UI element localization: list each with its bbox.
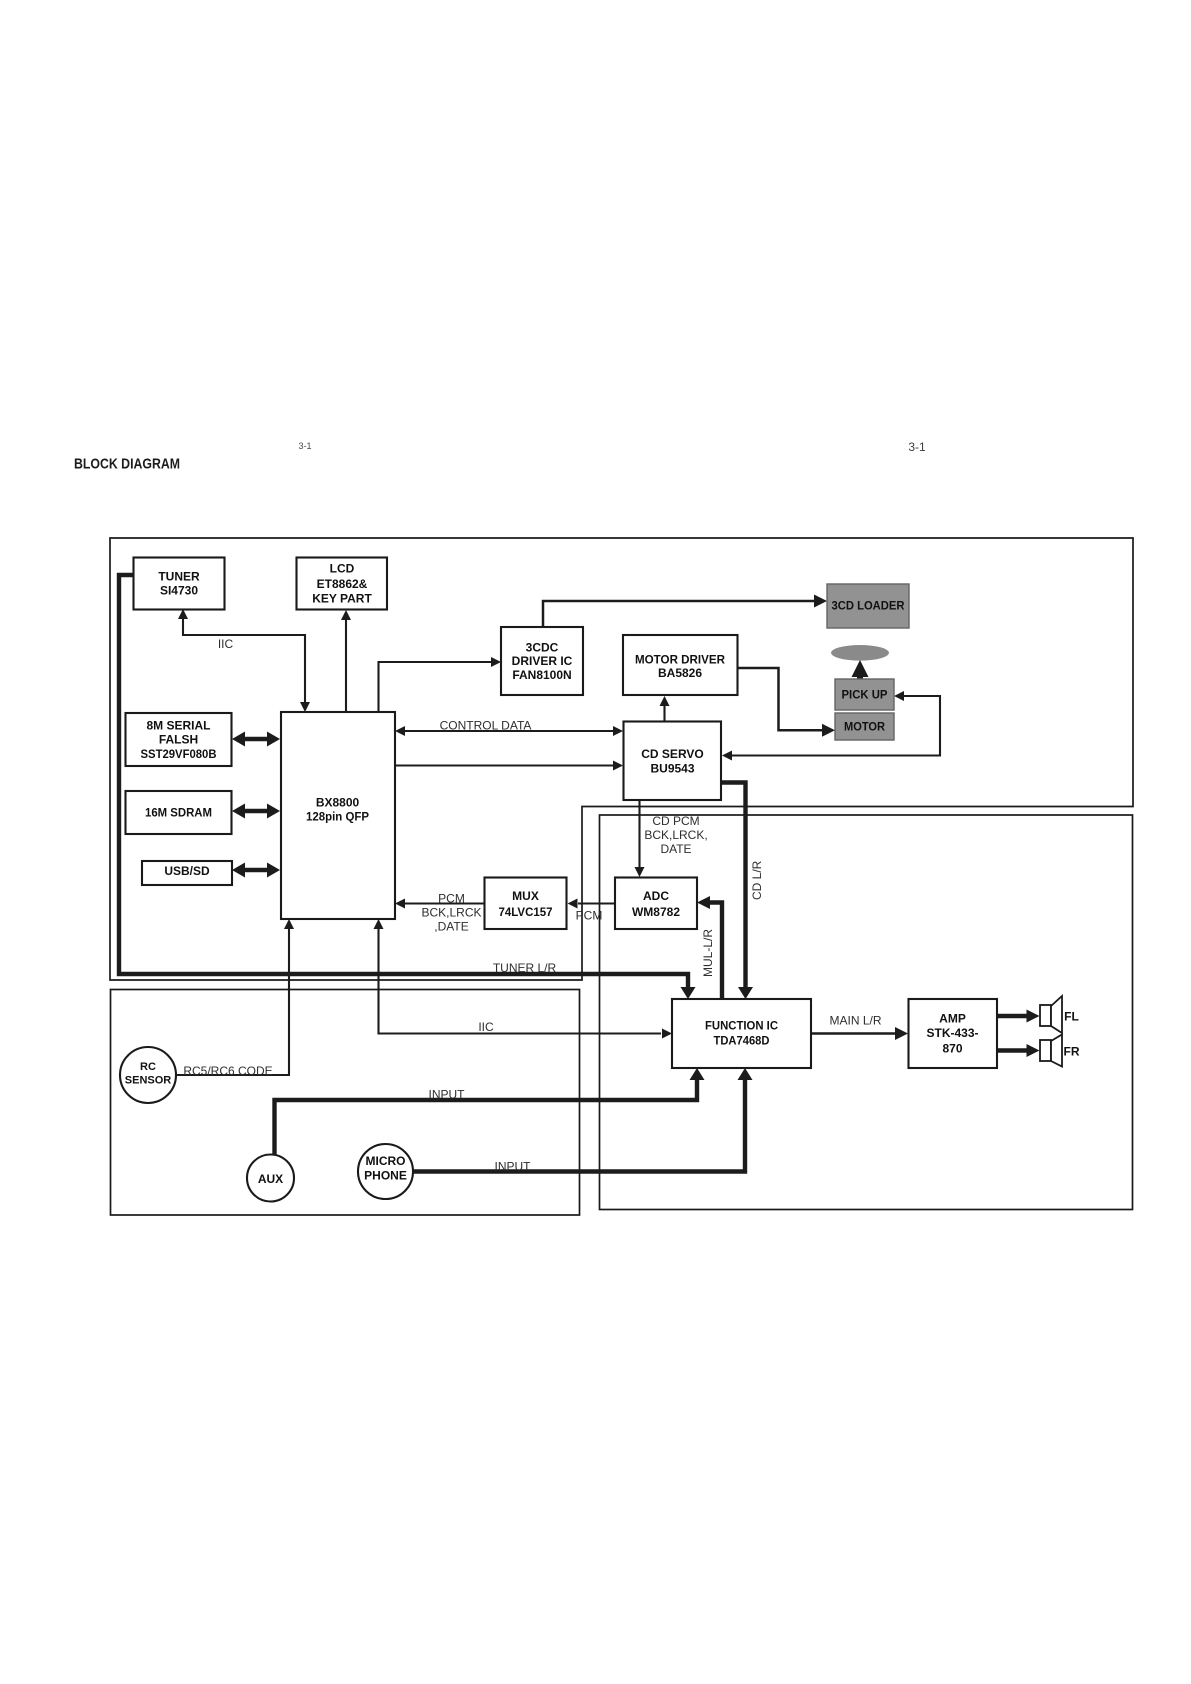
group outline: input section (bottom left)	[111, 990, 580, 1216]
svg-text:BU9543: BU9543	[650, 762, 694, 776]
svg-text:SST29VF080B: SST29VF080B	[141, 747, 217, 761]
wire: CONTROL DATA bidirectional BX8800 - CD SERVO	[395, 719, 623, 737]
svg-text:MUL-L/R: MUL-L/R	[701, 929, 715, 977]
block TUNER SI4730	[134, 558, 225, 610]
wire: AMP to FL speaker thick	[997, 1010, 1040, 1023]
svg-text:IIC: IIC	[478, 1020, 494, 1034]
svg-text:PCM: PCM	[438, 892, 465, 906]
svg-text:3-1: 3-1	[908, 440, 926, 454]
wire: MAIN L/R FUNCTION IC to AMP	[811, 1014, 908, 1041]
svg-text:DRIVER IC: DRIVER IC	[512, 654, 573, 668]
wire: RC sensor RC5/RC6 CODE to BX8800	[176, 919, 294, 1078]
block ADC WM8782	[615, 878, 697, 930]
svg-text:TUNER: TUNER	[158, 570, 200, 584]
svg-text:CD PCM: CD PCM	[652, 814, 699, 828]
wire: AMP to FR speaker thick	[997, 1044, 1040, 1057]
svg-text:CD L/R: CD L/R	[750, 860, 764, 900]
block MOTOR gray	[835, 713, 894, 740]
svg-text:DATE: DATE	[660, 842, 691, 856]
group outline: audio section (right)	[600, 815, 1133, 1210]
block CD SERVO BU9543	[624, 722, 722, 801]
block MOTOR DRIVER BA5826	[623, 635, 738, 695]
svg-text:3CDC: 3CDC	[526, 641, 559, 655]
wire: IIC bus from BX8800 to TUNER	[178, 609, 310, 712]
wire: CD L/R thick from CD SERVO to FUNCTION IC	[721, 783, 764, 1000]
svg-text:16M SDRAM: 16M SDRAM	[145, 806, 212, 820]
svg-text:USB/SD: USB/SD	[164, 864, 210, 878]
block 3CDC DRIVER IC FAN8100N	[501, 627, 583, 695]
svg-text:PCM: PCM	[576, 909, 603, 923]
svg-text:AMP: AMP	[939, 1012, 966, 1026]
wire: AUX INPUT thick to FUNCTION IC	[275, 1068, 705, 1155]
svg-text:RC: RC	[140, 1061, 156, 1073]
wire: IIC bus BX8800 to FUNCTION IC	[374, 919, 673, 1039]
svg-text:870: 870	[942, 1042, 962, 1056]
wire: 3CDC driver IC to 3CD loader	[543, 595, 827, 628]
svg-text:74LVC157: 74LVC157	[499, 905, 553, 919]
node RC SENSOR	[120, 1047, 176, 1103]
wire: MUX to BX8800, PCM BCK LRCK DATE	[395, 892, 485, 934]
wire: pick-up feedback loop to CD SERVO	[722, 691, 940, 761]
svg-text:IIC: IIC	[218, 637, 234, 651]
block USB/SD	[142, 861, 232, 885]
wire: MUL-L/R thick from FUNCTION IC to ADC	[697, 896, 722, 999]
svg-text:BX8800: BX8800	[316, 796, 360, 810]
block 8M SERIAL FALSH SST29VF080B	[126, 713, 232, 766]
svg-text:TUNER L/R: TUNER L/R	[493, 961, 557, 975]
svg-text:FR: FR	[1064, 1045, 1080, 1059]
svg-text:LCD: LCD	[330, 562, 355, 576]
wire: 16M SDRAM to BX8800 bidirectional thick	[232, 804, 280, 819]
svg-text:MOTOR DRIVER: MOTOR DRIVER	[635, 653, 725, 667]
svg-text:BCK,LRCK,: BCK,LRCK,	[644, 828, 707, 842]
wire: BX8800 to CD SERVO lower	[395, 761, 623, 771]
svg-text:FALSH: FALSH	[159, 733, 198, 747]
svg-text:TDA7468D: TDA7468D	[714, 1034, 770, 1048]
node MICROPHONE	[358, 1144, 413, 1199]
wire: USB/SD to BX8800 bidirectional thick	[232, 863, 280, 878]
wire: BX8800 to 3CDC driver IC	[379, 657, 502, 712]
svg-text:BLOCK DIAGRAM: BLOCK DIAGRAM	[74, 456, 180, 473]
wire: 8M serial flash to BX8800 bidirectional thick	[232, 732, 280, 747]
wire: PICK UP to disc big arrow	[852, 660, 869, 677]
wire: MOTOR DRIVER to loader MOTOR	[738, 668, 835, 737]
block LCD ET8862 and KEY PART	[297, 558, 388, 610]
svg-text:FUNCTION IC: FUNCTION IC	[705, 1019, 778, 1033]
svg-text:SI4730: SI4730	[160, 584, 198, 598]
svg-text:3-1: 3-1	[298, 441, 311, 451]
wire: BX8800 to LCD	[341, 610, 351, 712]
svg-text:SENSOR: SENSOR	[125, 1075, 172, 1087]
speaker FR	[1040, 1035, 1080, 1067]
svg-text:,DATE: ,DATE	[434, 920, 468, 934]
block AMP STK-433-870	[909, 999, 998, 1068]
block 3CD LOADER gray	[827, 584, 909, 628]
svg-text:CONTROL DATA: CONTROL DATA	[440, 719, 532, 733]
svg-text:128pin QFP: 128pin QFP	[306, 810, 369, 824]
svg-text:FL: FL	[1064, 1010, 1079, 1024]
group outline: main digital section (step polygon)	[110, 538, 1133, 980]
wire: MICROPHONE INPUT thick to FUNCTION IC	[413, 1068, 753, 1174]
wire: CD SERVO to ADC, CD PCM BCK LRCK DATE	[635, 800, 708, 877]
block BX8800 128pin QFP	[281, 712, 395, 919]
node AUX	[247, 1155, 294, 1202]
svg-text:RC5/RC6 CODE: RC5/RC6 CODE	[183, 1064, 272, 1078]
svg-text:MOTOR: MOTOR	[844, 720, 885, 734]
svg-text:CD SERVO: CD SERVO	[641, 747, 703, 761]
wire: TUNER L/R thick path from TUNER to FUNCTION IC	[119, 575, 696, 999]
svg-text:MAIN L/R: MAIN L/R	[829, 1014, 881, 1028]
svg-text:ADC: ADC	[643, 889, 669, 903]
block FUNCTION IC TDA7468D	[672, 999, 811, 1068]
svg-text:BA5826: BA5826	[658, 666, 702, 680]
svg-text:AUX: AUX	[258, 1172, 283, 1186]
wire: ADC to MUX, PCM	[568, 899, 616, 923]
svg-text:MUX: MUX	[512, 889, 539, 903]
disc gray ellipse	[831, 645, 889, 661]
block 16M SDRAM	[126, 791, 232, 834]
svg-text:MICRO: MICRO	[366, 1154, 406, 1168]
block PICK UP gray	[835, 679, 894, 710]
svg-text:WM8782: WM8782	[632, 905, 680, 919]
svg-text:PICK UP: PICK UP	[842, 688, 888, 702]
svg-text:KEY PART: KEY PART	[312, 592, 372, 606]
svg-text:8M SERIAL: 8M SERIAL	[146, 719, 210, 733]
wire: CD SERVO to MOTOR DRIVER	[660, 696, 670, 721]
svg-text:PHONE: PHONE	[364, 1169, 407, 1183]
svg-text:BCK,LRCK: BCK,LRCK	[421, 906, 481, 920]
svg-text:ET8862&: ET8862&	[317, 577, 368, 591]
svg-text:INPUT: INPUT	[495, 1160, 532, 1174]
svg-text:INPUT: INPUT	[429, 1088, 466, 1102]
svg-text:FAN8100N: FAN8100N	[512, 668, 571, 682]
speaker FL	[1040, 996, 1079, 1033]
svg-text:STK-433-: STK-433-	[926, 1026, 978, 1040]
svg-text:3CD LOADER: 3CD LOADER	[832, 599, 905, 613]
block MUX 74LVC157	[485, 878, 567, 930]
